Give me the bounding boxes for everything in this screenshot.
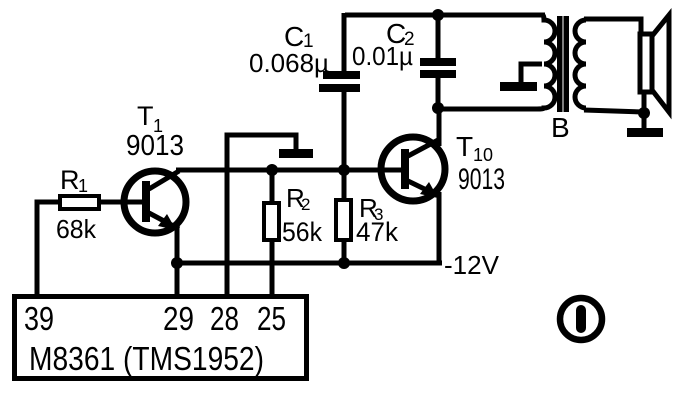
wire R2 top lead <box>270 170 275 203</box>
wire R3 bottom lead <box>342 240 347 263</box>
wire top rail from C1 column to transformer primary top <box>345 13 545 18</box>
resistor R1 <box>60 196 99 209</box>
wire pin39 column and R1 left lead <box>37 202 60 294</box>
wire bottom -12V rail <box>177 261 442 266</box>
wire C2 column vertical top <box>436 13 441 60</box>
wire R3 top lead <box>342 170 347 200</box>
svg-text:39: 39 <box>24 300 54 337</box>
svg-text:9013: 9013 <box>126 130 184 162</box>
node junction dot top rail / C2 <box>432 9 444 21</box>
node junction dot R3 bottom <box>338 257 350 269</box>
svg-text:-12V: -12V <box>444 250 500 280</box>
svg-text:28: 28 <box>210 300 239 337</box>
svg-text:1: 1 <box>78 176 88 196</box>
transformer tap terminal bar <box>500 82 537 91</box>
node junction dot R3 top <box>338 164 350 176</box>
capacitor C2 <box>420 58 456 78</box>
IC U1 M8361 box <box>15 297 307 379</box>
node junction dot collector / transformer bottom <box>432 102 444 114</box>
svg-text:9013: 9013 <box>458 163 505 196</box>
wire collector node to transformer primary bottom <box>438 107 537 112</box>
wire speaker bottom stub <box>642 92 647 113</box>
wire C1 column vertical top <box>342 13 347 72</box>
wire T1 collector rail y170 to T10 base <box>176 168 403 173</box>
wire C1 bottom to node at y170 <box>342 91 347 172</box>
wire R2 bottom to pin25 <box>270 240 275 294</box>
svg-text:0.01µ: 0.01µ <box>352 41 413 71</box>
wire C2 bottom to collector node <box>436 77 441 112</box>
svg-text:B: B <box>551 112 570 143</box>
svg-text:10: 10 <box>473 145 493 165</box>
wire secondary top to speaker <box>584 19 641 34</box>
svg-text:68k: 68k <box>56 214 97 244</box>
node junction dot speaker ground <box>638 107 650 119</box>
wire T1 emitter column to pin29 <box>175 228 180 294</box>
wire pin28 column <box>227 135 296 294</box>
svg-text:T: T <box>456 131 473 162</box>
transistor T1 <box>120 171 186 233</box>
figure number circled 1 <box>560 298 602 340</box>
resistor R3 <box>336 200 351 240</box>
transformer core bars <box>557 16 563 112</box>
svg-text:R: R <box>60 165 80 195</box>
svg-text:25: 25 <box>257 300 286 337</box>
node junction dot R2 top <box>266 164 278 176</box>
svg-text:2: 2 <box>301 195 310 214</box>
capacitor C1 <box>319 71 360 92</box>
wire R1 to T1 base <box>99 200 144 205</box>
resistor R2 <box>264 203 279 240</box>
transformer primary center tap wire <box>521 64 542 82</box>
svg-text:47k: 47k <box>356 217 398 247</box>
transistor T10 <box>379 108 445 263</box>
speaker cone <box>652 15 669 112</box>
svg-text:0.068µ: 0.068µ <box>249 48 329 78</box>
svg-text:T: T <box>137 101 154 131</box>
transformer B primary winding <box>537 15 555 109</box>
svg-text:56k: 56k <box>282 217 322 247</box>
transformer B secondary winding <box>575 20 586 108</box>
speaker driver rectangle <box>640 34 652 92</box>
svg-text:29: 29 <box>163 300 194 337</box>
ground under speaker <box>642 113 647 128</box>
svg-text:M8361 (TMS1952): M8361 (TMS1952) <box>29 340 264 377</box>
wire secondary bottom to speaker ground node <box>584 110 644 112</box>
node junction dot emitter rail <box>171 257 183 269</box>
terminal bar on pin28 hook <box>279 149 313 158</box>
